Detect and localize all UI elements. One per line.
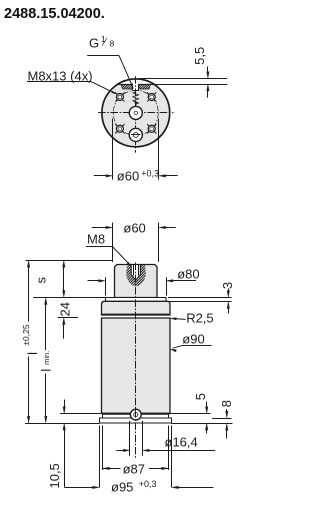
svg-text:+0,3: +0,3 — [139, 479, 157, 489]
svg-text:ø80: ø80 — [177, 267, 199, 282]
svg-text:l: l — [39, 369, 54, 372]
svg-text:5,5: 5,5 — [192, 47, 207, 65]
svg-text:10,5: 10,5 — [47, 463, 62, 488]
svg-text:8: 8 — [219, 400, 233, 407]
svg-text:G: G — [89, 36, 99, 51]
svg-text:min.: min. — [42, 351, 51, 365]
svg-text:24: 24 — [57, 302, 72, 316]
svg-text:ø87: ø87 — [123, 461, 145, 476]
svg-text:3: 3 — [220, 282, 233, 289]
svg-text:l: l — [25, 352, 40, 355]
svg-text:ø95: ø95 — [111, 480, 133, 495]
svg-text:ø16,4: ø16,4 — [165, 435, 198, 450]
svg-text:s: s — [33, 277, 48, 284]
svg-text:5: 5 — [193, 393, 208, 400]
svg-text:±0,25: ±0,25 — [21, 324, 31, 345]
svg-text:+0,3: +0,3 — [141, 168, 159, 178]
svg-text:M8: M8 — [87, 232, 105, 247]
svg-text:R2,5: R2,5 — [186, 310, 213, 325]
svg-text:ø60: ø60 — [123, 221, 145, 236]
svg-text:8: 8 — [110, 38, 115, 48]
svg-text:2488.15.04200.: 2488.15.04200. — [4, 6, 105, 22]
svg-text:ø60: ø60 — [117, 168, 139, 183]
svg-text:ø90: ø90 — [182, 332, 204, 347]
